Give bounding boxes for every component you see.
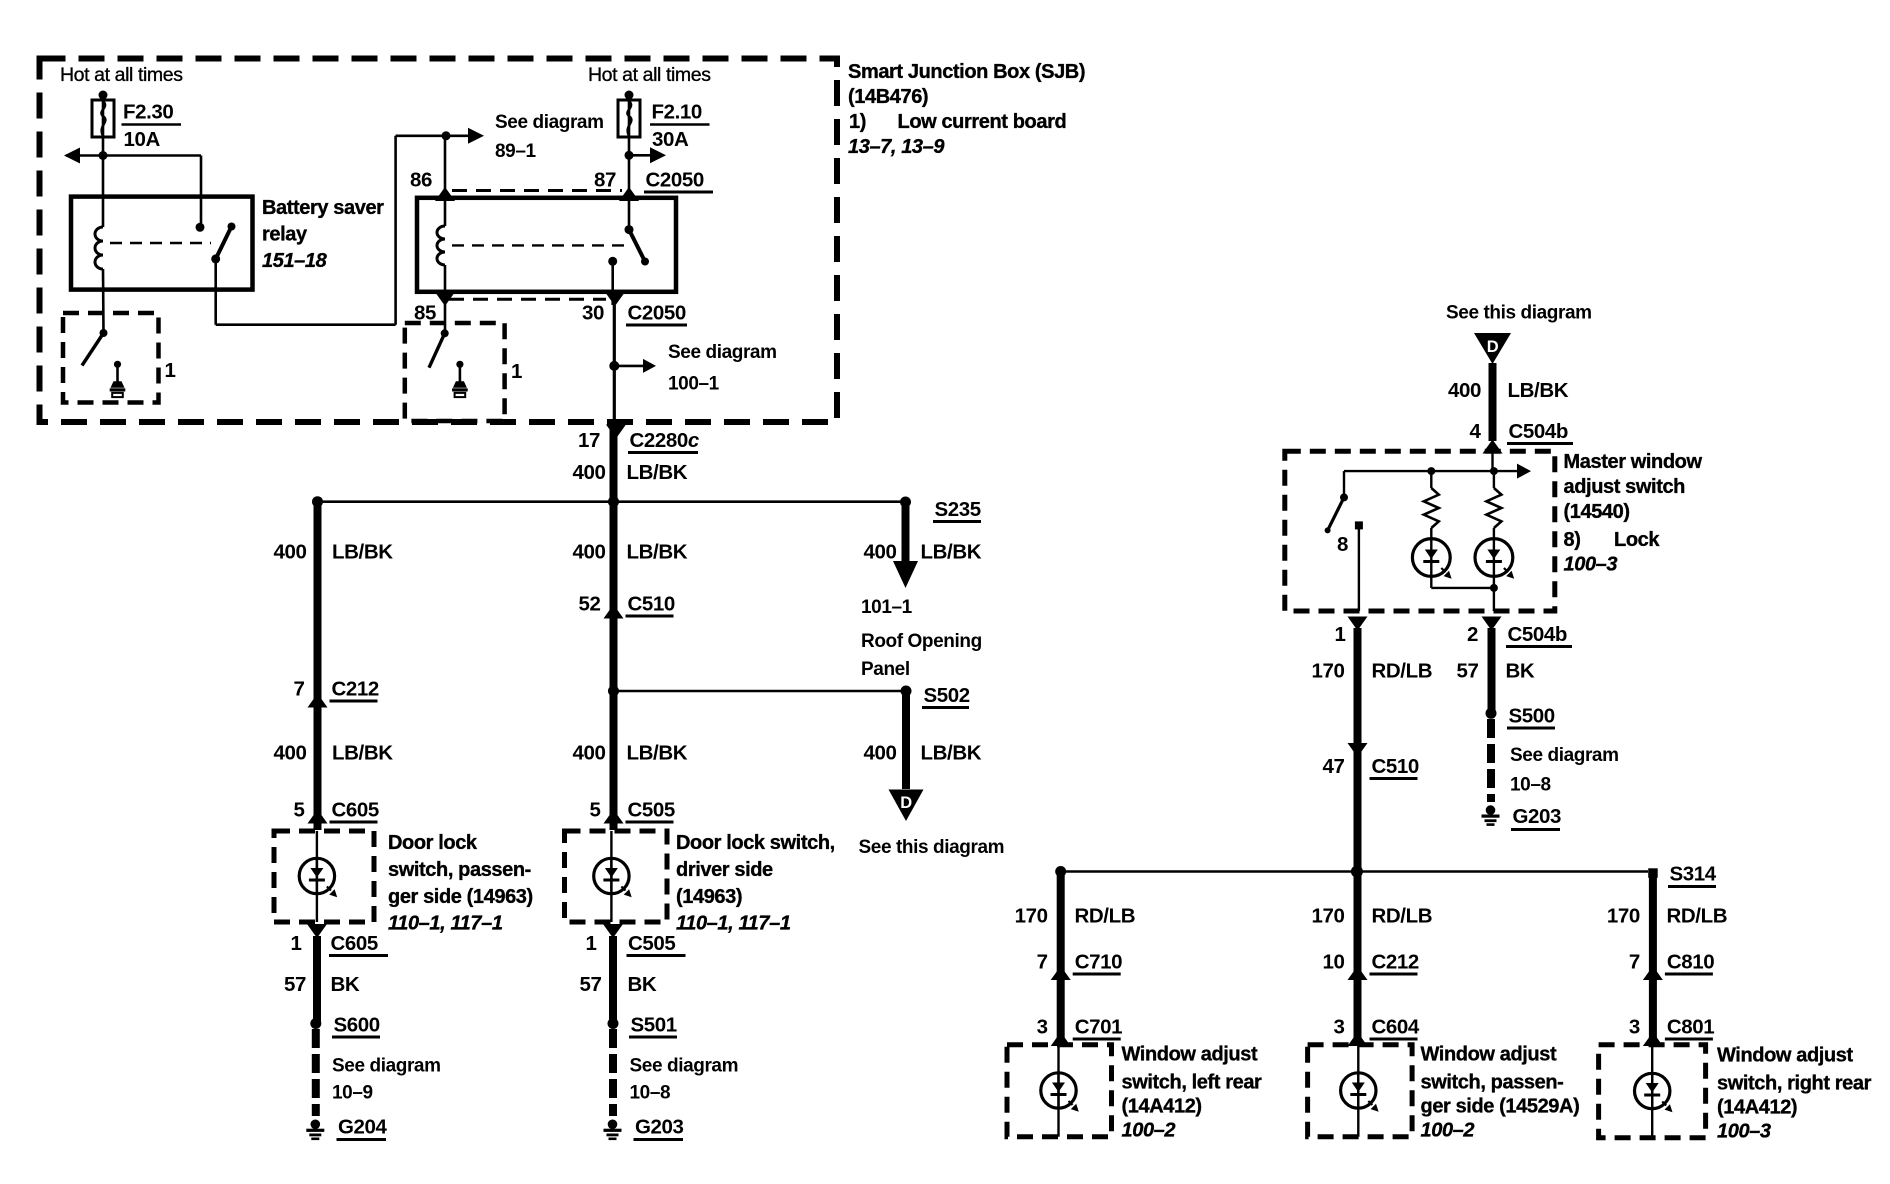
ground G203 (master) [1486, 805, 1496, 815]
splice S600 dot [310, 1018, 321, 1029]
master illumination lamp right [1475, 539, 1513, 577]
svg-text:10–8: 10–8 [1510, 775, 1551, 796]
right rear branch wire [1649, 873, 1657, 1045]
svg-text:400: 400 [572, 742, 605, 765]
splice S501 dot [608, 1018, 619, 1029]
svg-text:400: 400 [572, 461, 605, 484]
accessory relay actuation dashed link [452, 244, 625, 246]
ground G204 [311, 1120, 321, 1130]
svg-text:See this diagram: See this diagram [859, 837, 1005, 858]
junction dot bus-right lamp [1490, 467, 1498, 475]
arrow to see diagram 89-1 [446, 135, 470, 138]
svg-text:RD/LB: RD/LB [1667, 905, 1728, 928]
svg-text:LB/BK: LB/BK [627, 742, 688, 765]
svg-text:LB/BK: LB/BK [1508, 379, 1569, 402]
pin 87 arrow [619, 187, 639, 201]
svg-text:C212: C212 [332, 678, 379, 701]
svg-text:S314: S314 [1670, 863, 1717, 886]
svg-text:7: 7 [1629, 951, 1640, 974]
wire main LB/BK feed [610, 427, 618, 830]
svg-text:100–3: 100–3 [1717, 1121, 1771, 1143]
svg-text:110–1, 117–1: 110–1, 117–1 [676, 913, 791, 935]
svg-text:100–2: 100–2 [1421, 1120, 1475, 1142]
svg-text:S235: S235 [935, 498, 981, 521]
resistor (left lamp) [1430, 471, 1432, 488]
svg-text:C604: C604 [1372, 1016, 1420, 1039]
svg-text:4: 4 [1469, 420, 1481, 443]
svg-text:See diagram: See diagram [630, 1056, 739, 1077]
svg-text:Door lock switch,: Door lock switch, [676, 832, 835, 854]
door lock switch passenger side box [274, 831, 374, 922]
door lock switch driver side box [565, 831, 668, 922]
wire into switch box 1 [102, 269, 105, 333]
svg-text:C2050: C2050 [646, 169, 704, 192]
svg-text:5: 5 [293, 799, 304, 822]
splice S235 dot [900, 497, 911, 508]
window adjust switch right rear box [1599, 1045, 1706, 1138]
bottom splice bus wire [1061, 870, 1648, 873]
svg-text:S502: S502 [924, 684, 970, 707]
dashed switch box 1 [63, 313, 159, 403]
battery saver relay box [71, 197, 253, 290]
pin 2 arrow below master box [1482, 617, 1502, 631]
fuse F2.10 [625, 91, 634, 100]
svg-text:2: 2 [1467, 623, 1478, 646]
svg-text:LB/BK: LB/BK [627, 541, 688, 564]
connector C504b above box (4) [1483, 440, 1503, 454]
fuse F2.30 [99, 91, 108, 100]
junction dot below F2.10 [625, 151, 634, 160]
svg-text:151–18: 151–18 [262, 250, 328, 272]
svg-text:G203: G203 [1513, 805, 1562, 828]
Smart Junction Box SJB dashed boundary [40, 59, 838, 423]
svg-text:C710: C710 [1075, 951, 1122, 974]
wire through door lock switch driver [610, 831, 612, 922]
svg-text:5: 5 [589, 799, 600, 822]
svg-text:1): 1) [849, 111, 866, 133]
svg-text:10: 10 [1322, 951, 1344, 974]
junction dot on see-diagram-89-1 line [442, 131, 451, 140]
junction dot splice line 1 [608, 496, 619, 507]
accessory relay box [417, 198, 676, 292]
svg-text:switch, left rear: switch, left rear [1122, 1072, 1263, 1094]
svg-text:S501: S501 [631, 1014, 677, 1037]
master pin 1 wire RD/LB [1354, 628, 1362, 1045]
pin 85 arrow [435, 292, 455, 306]
splice wire to S235 [318, 500, 906, 503]
svg-text:10–8: 10–8 [630, 1083, 671, 1104]
connector C605 below box (1) [307, 924, 327, 938]
svg-text:adjust switch: adjust switch [1564, 476, 1686, 498]
svg-text:C510: C510 [628, 593, 675, 616]
wire through right rear switch [1651, 1045, 1653, 1138]
svg-text:Window adjust: Window adjust [1421, 1044, 1557, 1066]
svg-text:400: 400 [863, 742, 896, 765]
center branch wire BK [609, 936, 617, 1024]
svg-text:Smart Junction Box (SJB): Smart Junction Box (SJB) [848, 61, 1085, 83]
svg-text:ger side (14529A): ger side (14529A) [1421, 1096, 1580, 1118]
svg-text:1: 1 [511, 360, 522, 383]
svg-text:BK: BK [331, 973, 360, 996]
svg-text:Master window: Master window [1564, 451, 1703, 473]
svg-text:C605: C605 [331, 932, 378, 955]
switch blade in box 2 [441, 329, 449, 337]
svg-text:Window adjust: Window adjust [1122, 1044, 1258, 1066]
svg-text:100–1: 100–1 [668, 374, 720, 395]
svg-text:D: D [900, 794, 912, 812]
master window adjust switch box [1285, 451, 1555, 611]
svg-text:LB/BK: LB/BK [921, 541, 982, 564]
svg-text:110–1, 117–1: 110–1, 117–1 [388, 913, 503, 935]
svg-text:relay: relay [262, 224, 308, 246]
svg-text:switch, passen-: switch, passen- [1421, 1072, 1564, 1094]
svg-text:30: 30 [582, 302, 604, 325]
svg-text:C801: C801 [1667, 1016, 1714, 1039]
connector C2050 dashed line below relay [449, 298, 606, 301]
master illumination lamp left [1412, 539, 1450, 577]
master switch internal bus with arrow [1344, 470, 1519, 472]
wire pin 30 down to SJB edge [613, 305, 616, 424]
junction dot bus-left lamp [1427, 467, 1435, 475]
svg-text:86: 86 [410, 169, 432, 192]
svg-text:10–9: 10–9 [332, 1083, 373, 1104]
svg-text:3: 3 [1629, 1016, 1640, 1039]
svg-text:C504b: C504b [1508, 623, 1568, 646]
svg-text:C2280c: C2280c [630, 429, 700, 452]
svg-text:3: 3 [1037, 1016, 1048, 1039]
svg-text:8): 8) [1564, 529, 1581, 551]
pin 86 arrow [435, 187, 455, 201]
svg-text:400: 400 [1448, 379, 1481, 402]
svg-text:LB/BK: LB/BK [332, 742, 393, 765]
svg-text:1: 1 [290, 932, 301, 955]
svg-text:(14540): (14540) [1564, 501, 1630, 523]
svg-text:RD/LB: RD/LB [1075, 905, 1136, 928]
dashed switch box 2 [405, 323, 505, 421]
svg-text:C212: C212 [1372, 951, 1419, 974]
svg-text:Window adjust: Window adjust [1717, 1045, 1853, 1067]
svg-text:400: 400 [572, 541, 605, 564]
connector C2280c arrow [606, 425, 626, 439]
svg-text:57: 57 [284, 973, 306, 996]
junction dot below F2.30 [99, 151, 108, 160]
svg-text:47: 47 [1322, 755, 1344, 778]
svg-text:See diagram: See diagram [495, 112, 604, 133]
svg-text:1: 1 [585, 932, 596, 955]
pin 1 arrow below master box [1348, 617, 1368, 631]
accessory switch bottom contact [608, 257, 617, 266]
svg-text:(14A412): (14A412) [1717, 1097, 1797, 1119]
battery saver relay coil [95, 227, 103, 269]
svg-text:Hot at all times: Hot at all times [60, 64, 183, 86]
window adjust switch left rear box [1007, 1045, 1112, 1137]
svg-text:D: D [1487, 338, 1499, 356]
svg-text:C2050: C2050 [628, 302, 686, 325]
svg-text:170: 170 [1015, 905, 1048, 928]
svg-text:G203: G203 [635, 1116, 684, 1139]
svg-text:F2.30: F2.30 [123, 101, 173, 124]
svg-text:C505: C505 [628, 932, 675, 955]
door lock switch passenger lamp [299, 858, 334, 893]
svg-text:See diagram: See diagram [1510, 745, 1619, 766]
door lock switch driver lamp [594, 858, 629, 893]
svg-text:See diagram: See diagram [332, 1056, 441, 1077]
wire fuse F2.10 down to accessory relay switch [628, 99, 631, 230]
splice wire to S502 [614, 690, 907, 693]
relay switch top contact dot [196, 223, 205, 232]
left rear branch wire [1057, 872, 1065, 1045]
svg-text:52: 52 [578, 593, 600, 616]
svg-text:Lock: Lock [1614, 529, 1660, 551]
svg-text:G204: G204 [338, 1116, 388, 1139]
svg-text:S600: S600 [334, 1014, 380, 1037]
svg-text:170: 170 [1311, 905, 1344, 928]
lamp return wire [1430, 576, 1432, 588]
window adjust right rear lamp [1635, 1073, 1670, 1108]
svg-text:C504b: C504b [1509, 420, 1569, 443]
wire branch left with arrow [66, 154, 201, 157]
svg-text:(14A412): (14A412) [1122, 1096, 1202, 1118]
junction dot bus middle [1351, 866, 1363, 878]
wire from blade pivot down-right-up [214, 259, 217, 325]
svg-text:(14B476): (14B476) [848, 86, 928, 108]
svg-text:10A: 10A [124, 128, 161, 151]
resistor (right lamp) [1493, 471, 1495, 488]
relay actuation dashed link [110, 242, 211, 244]
svg-text:driver side: driver side [676, 859, 773, 881]
splice S314 terminal [1648, 868, 1658, 878]
svg-text:C605: C605 [332, 799, 379, 822]
junction dot bus left end [1055, 866, 1066, 877]
svg-text:S500: S500 [1509, 705, 1555, 728]
wire pin 86 to coil [444, 136, 447, 226]
svg-text:89–1: 89–1 [495, 141, 537, 162]
svg-text:LB/BK: LB/BK [921, 742, 982, 765]
svg-text:400: 400 [273, 742, 306, 765]
left branch wire BK [313, 936, 321, 1024]
svg-text:57: 57 [579, 973, 601, 996]
svg-text:See this diagram: See this diagram [1446, 303, 1592, 324]
switch blade in box 1 [100, 329, 108, 337]
splice S500 dot [1486, 708, 1497, 719]
S502 wire down [902, 695, 910, 789]
arrow stub right of F2.10 [629, 154, 651, 157]
svg-text:100–3: 100–3 [1564, 554, 1618, 576]
junction dot left end splice 1 [312, 496, 323, 507]
svg-text:ger side (14963): ger side (14963) [388, 886, 533, 908]
junction dot see diagram 100-1 [609, 361, 619, 371]
svg-text:LB/BK: LB/BK [332, 541, 393, 564]
accessory switch blade [629, 230, 645, 262]
svg-text:101–1: 101–1 [861, 597, 913, 618]
svg-text:BK: BK [628, 973, 657, 996]
svg-text:C701: C701 [1075, 1016, 1122, 1039]
svg-text:13–7, 13–9: 13–7, 13–9 [848, 136, 945, 158]
svg-text:30A: 30A [652, 128, 689, 151]
left branch wire LB/BK [314, 502, 322, 830]
svg-text:C810: C810 [1667, 951, 1714, 974]
svg-text:C510: C510 [1372, 755, 1419, 778]
window adjust passenger lamp [1341, 1073, 1376, 1108]
svg-text:RD/LB: RD/LB [1372, 905, 1433, 928]
svg-text:400: 400 [863, 541, 896, 564]
wire D to master switch [1489, 363, 1497, 441]
svg-text:RD/LB: RD/LB [1372, 660, 1433, 683]
D triangle (S502 to see this diagram) [889, 790, 924, 822]
relay switch blade [216, 227, 232, 259]
S235 wire with arrow to roof opening panel [902, 506, 910, 562]
svg-text:Door lock: Door lock [388, 832, 478, 854]
pin 30 arrow [605, 292, 625, 306]
chassis ground in box 2 [456, 361, 463, 368]
master pin 2 wire BK [1488, 628, 1496, 713]
window adjust left rear lamp [1041, 1073, 1076, 1108]
splice S502 dot [901, 686, 912, 697]
pin 8 terminal and wire [1355, 521, 1363, 529]
master lock switch blade [1343, 471, 1345, 497]
chassis ground in box 1 [114, 361, 121, 368]
left dashed ground wire [312, 1029, 320, 1116]
svg-text:87: 87 [594, 169, 616, 192]
svg-text:57: 57 [1456, 660, 1478, 683]
svg-text:170: 170 [1311, 660, 1344, 683]
svg-text:Low current board: Low current board [898, 111, 1067, 133]
svg-text:switch, right rear: switch, right rear [1717, 1073, 1872, 1095]
wire through door lock switch passenger [316, 831, 318, 922]
svg-text:Panel: Panel [861, 659, 910, 680]
svg-text:Roof Opening: Roof Opening [861, 631, 982, 652]
svg-text:8: 8 [1337, 533, 1348, 556]
svg-text:(14963): (14963) [676, 886, 742, 908]
connector C505 below box (1) [603, 924, 623, 938]
D triangle source [1474, 333, 1511, 364]
wire coil to pin 85 [444, 265, 447, 333]
svg-text:17: 17 [578, 429, 600, 452]
svg-text:BK: BK [1506, 660, 1535, 683]
junction dot splice line 2 [608, 686, 619, 697]
svg-text:400: 400 [273, 541, 306, 564]
svg-text:7: 7 [1037, 951, 1048, 974]
svg-text:7: 7 [293, 678, 304, 701]
svg-text:3: 3 [1333, 1016, 1344, 1039]
svg-text:1: 1 [165, 359, 176, 382]
svg-text:switch, passen-: switch, passen- [388, 859, 531, 881]
svg-text:Hot at all times: Hot at all times [588, 64, 711, 86]
wire down to relay switch contact [200, 156, 203, 228]
window adjust switch passenger box [1308, 1045, 1413, 1137]
svg-text:100–2: 100–2 [1122, 1120, 1176, 1142]
accessory relay coil [437, 226, 445, 265]
accessory switch top contact dot [625, 225, 634, 234]
center dashed ground wire [609, 1029, 617, 1116]
wire fuse F2.30 down to battery saver relay coil [102, 99, 105, 227]
svg-text:Battery saver: Battery saver [262, 197, 384, 219]
connector C2050 dashed line above relay [452, 189, 622, 192]
master dashed ground wire [1487, 719, 1495, 802]
svg-text:C505: C505 [628, 799, 675, 822]
wire through passenger switch [1357, 1045, 1359, 1137]
wire into master switch [1491, 451, 1493, 471]
svg-text:1: 1 [1334, 623, 1345, 646]
arrow to see diagram 100-1 [614, 365, 643, 368]
svg-text:F2.10: F2.10 [652, 101, 702, 124]
wire through left rear switch [1057, 1045, 1059, 1137]
svg-text:See diagram: See diagram [668, 342, 777, 363]
ground G203 (driver) [608, 1120, 618, 1130]
svg-text:170: 170 [1607, 905, 1640, 928]
svg-text:LB/BK: LB/BK [627, 461, 688, 484]
